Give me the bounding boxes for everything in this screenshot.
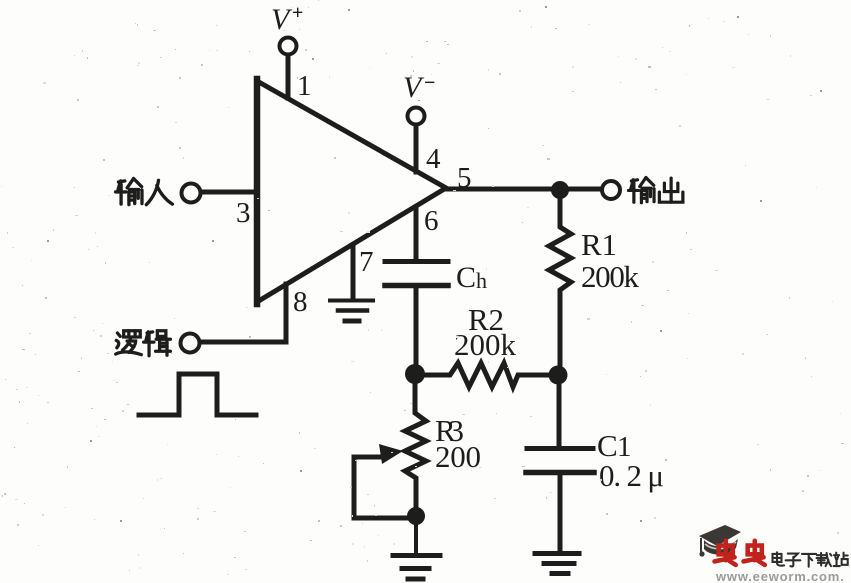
svg-text:200: 200 <box>435 439 481 474</box>
svg-text:7: 7 <box>359 246 374 278</box>
svg-text:6: 6 <box>424 205 439 237</box>
svg-text:0. 2 μ: 0. 2 μ <box>599 458 664 493</box>
svg-text:V: V <box>271 3 293 36</box>
svg-text:1: 1 <box>297 70 312 102</box>
svg-text:V: V <box>403 71 425 104</box>
svg-text:+: + <box>292 2 303 24</box>
svg-text:C: C <box>456 261 476 294</box>
svg-text:200k: 200k <box>581 259 640 294</box>
svg-text:4: 4 <box>426 143 441 175</box>
svg-text:200k: 200k <box>454 327 517 362</box>
svg-text:h: h <box>476 268 487 293</box>
svg-text:5: 5 <box>457 162 472 194</box>
svg-text:3: 3 <box>236 197 251 229</box>
svg-text:8: 8 <box>293 286 308 318</box>
svg-text:www.eeworm.com.: www.eeworm.com. <box>715 569 845 583</box>
svg-text:R1: R1 <box>581 227 617 262</box>
svg-text:−: − <box>424 72 435 94</box>
